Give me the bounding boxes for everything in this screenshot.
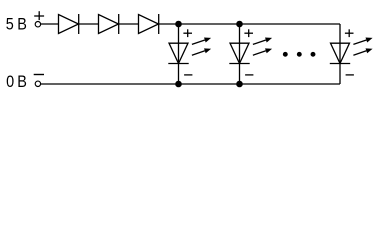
minus label LED1 — [184, 74, 192, 76]
wire: VD1 to VD2 — [79, 23, 99, 25]
svg-text:5: 5 — [6, 16, 14, 34]
node: top junction LED1 — [175, 21, 182, 28]
diode VD1 — [59, 14, 79, 34]
plus label LED3 — [345, 29, 354, 37]
node: top junction LED2 — [236, 21, 243, 28]
node: bottom junction LED1 — [175, 81, 182, 88]
wire: top rail VD3 to right corner — [159, 23, 340, 25]
label 0 V — [6, 73, 27, 91]
emission arrows LED1 — [192, 38, 211, 56]
svg-text:В: В — [17, 16, 27, 34]
minus label LED2 — [245, 74, 253, 76]
wire: LED1 vertical branch — [178, 24, 180, 84]
svg-text:В: В — [17, 73, 27, 91]
LED HL1 — [168, 43, 188, 63]
emission arrows LED3 — [353, 38, 372, 56]
LED HL2 — [229, 43, 249, 63]
svg-text:0: 0 — [6, 73, 14, 91]
terminal circle 0V — [35, 81, 40, 86]
terminal circle 5V — [35, 22, 40, 27]
ellipsis dots — [283, 52, 316, 57]
wire: VD2 to VD3 — [119, 23, 139, 25]
diode VD3 — [139, 14, 159, 34]
wire: bottom rail — [41, 83, 340, 85]
LED HL3 — [330, 43, 350, 63]
plus label LED1 — [183, 29, 192, 37]
plus sign of 5V terminal — [34, 11, 44, 20]
minus sign of 0V terminal — [34, 74, 44, 76]
minus label LED3 — [346, 74, 354, 76]
wire: LED2 vertical branch — [239, 24, 241, 84]
plus label LED2 — [244, 29, 253, 37]
wire: LED3 vertical branch (right edge) — [339, 24, 341, 84]
emission arrows LED2 — [253, 38, 272, 56]
node: bottom junction LED2 — [236, 81, 243, 88]
label 5 V — [6, 16, 27, 34]
wire: 5V terminal to diode VD1 — [41, 23, 59, 25]
diode VD2 — [99, 14, 119, 34]
